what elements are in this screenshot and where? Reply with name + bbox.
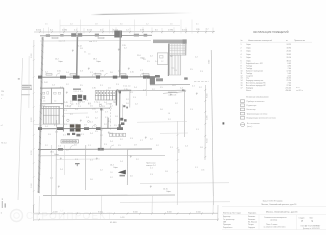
svg-text:Трубопроводы системы: Трубопроводы системы (247, 113, 268, 115)
corridor leader arrow (118, 89, 184, 92)
svg-text:Разработал: Разработал (223, 227, 232, 229)
svg-text:1.9: 1.9 (48, 134, 51, 136)
svg-text:20.05: 20.05 (287, 51, 292, 53)
svg-text:1.2: 1.2 (94, 126, 97, 128)
left margin small marks (18, 78, 20, 79)
svg-text:2.4: 2.4 (70, 24, 73, 26)
svg-text:в2: в2 (1, 125, 3, 127)
wall y128 (38, 127, 123, 130)
svg-text:Воздуховоды приточной системы: Воздуховоды приточной системы (247, 117, 277, 120)
svg-text:ООО АБ «ОСТОЖЕНКА»: ООО АБ «ОСТОЖЕНКА» (301, 224, 321, 227)
vertical x177 (176, 121, 178, 205)
svg-text:1.1: 1.1 (50, 178, 53, 180)
svg-text:4: 4 (241, 54, 242, 56)
svg-text:2.1: 2.1 (192, 86, 195, 88)
svg-text:1.2: 1.2 (199, 87, 202, 89)
svg-text:6.000: 6.000 (133, 211, 138, 213)
svg-text:1.8: 1.8 (82, 102, 85, 104)
svg-text:Офис: Офис (246, 56, 251, 59)
svg-text:1.6: 1.6 (170, 24, 173, 26)
svg-text:1.2: 1.2 (195, 57, 198, 59)
svg-text:1.3: 1.3 (58, 146, 61, 148)
svg-text:6.000: 6.000 (179, 149, 181, 153)
svg-text:1.4: 1.4 (75, 109, 78, 111)
svg-text:6.010: 6.010 (87, 29, 93, 31)
vertical x56 (55, 120, 57, 195)
svg-text:1.2: 1.2 (70, 101, 73, 103)
svg-text:1.15: 1.15 (124, 89, 128, 91)
svg-text:6.010: 6.010 (206, 139, 208, 144)
fixtures row (stalls grid) (95, 91, 115, 100)
svg-text:2.45: 2.45 (64, 102, 68, 104)
svg-text:Офис: Офис (246, 43, 251, 46)
left exterior wall (slanted, hatched) (38, 37, 44, 193)
svg-text:2.0: 2.0 (74, 145, 77, 147)
svg-text:2.2: 2.2 (45, 145, 48, 147)
svg-text:20.10: 20.10 (287, 57, 292, 59)
vertical x101 (100, 109, 102, 150)
svg-text:Офис: Офис (246, 50, 251, 53)
svg-text:2.1: 2.1 (90, 160, 93, 162)
svg-text:5.550: 5.550 (196, 211, 201, 213)
svg-text:1.3: 1.3 (55, 132, 58, 134)
dashed duct vertical (109, 103, 111, 130)
svg-text:Офис: Офис (246, 53, 251, 56)
svg-text:1.35: 1.35 (201, 170, 204, 172)
wall segment y84 right (150, 84, 190, 86)
svg-text:1.1: 1.1 (88, 145, 91, 147)
right edge vertical x213 (211, 50, 213, 205)
svg-text:2.2: 2.2 (96, 91, 99, 93)
svg-text:1.3: 1.3 (108, 121, 111, 123)
faint y133 (160, 132, 188, 134)
svg-text:1.1: 1.1 (94, 101, 97, 103)
svg-text:1.6: 1.6 (126, 103, 129, 105)
svg-text:2.2: 2.2 (124, 48, 127, 50)
svg-text:2.2: 2.2 (120, 139, 123, 141)
svg-text:2.2: 2.2 (95, 118, 98, 120)
svg-text:Заказ: ООО УК Сервис: Заказ: ООО УК Сервис (263, 200, 283, 202)
svg-text:18.90: 18.90 (287, 47, 292, 49)
svg-text:1.2: 1.2 (100, 170, 103, 172)
svg-text:0.8: 0.8 (75, 100, 78, 102)
svg-text:1.2: 1.2 (150, 139, 153, 141)
svg-text:Ив. Иванов: Ив. Иванов (248, 222, 257, 224)
svg-text:18.45: 18.45 (287, 54, 292, 56)
stair core walls (167, 44, 169, 77)
svg-text:6.000: 6.000 (31, 54, 33, 59)
svg-text:Конвектор: Конвектор (247, 109, 256, 111)
svg-text:2.3: 2.3 (116, 84, 119, 86)
svg-text:1.2: 1.2 (95, 112, 98, 114)
svg-text:1.2: 1.2 (110, 177, 113, 179)
svg-text:1.6: 1.6 (113, 102, 116, 104)
svg-text:1.500: 1.500 (53, 211, 58, 213)
svg-text:1.2: 1.2 (100, 135, 103, 137)
svg-text:Офис: Офис (58, 60, 63, 63)
svg-text:1.3: 1.3 (106, 90, 109, 92)
legend circle symbol (241, 123, 245, 127)
svg-text:1.85: 1.85 (100, 71, 104, 73)
svg-text:1.5: 1.5 (160, 87, 163, 89)
svg-text:2.1 1.4: 2.1 1.4 (74, 91, 79, 93)
svg-text:2.4: 2.4 (60, 169, 63, 171)
svg-text:ЭКСПЛИКАЦИЯ ПОМЕЩЕНИЙ: ЭКСПЛИКАЦИЯ ПОМЕЩЕНИЙ (253, 31, 289, 34)
dark equipment cluster (70, 124, 75, 127)
sub-room walls left (40, 87, 64, 89)
vertical x85 (84, 145, 87, 190)
svg-text:Пб 2.4: Пб 2.4 (1, 143, 6, 145)
svg-text:Офис: Офис (54, 153, 59, 156)
svg-text:1.1: 1.1 (150, 168, 153, 170)
svg-text:4.1: 4.1 (196, 24, 199, 26)
door arcs (56, 73, 60, 77)
left dim vertical (32, 40, 35, 213)
svg-text:системы: системы (270, 220, 278, 222)
svg-text:1.1: 1.1 (105, 117, 108, 119)
svg-text:1.35: 1.35 (92, 88, 96, 90)
stairwell hatch (169, 44, 185, 55)
svg-text:на 457 м: на 457 м (296, 90, 304, 92)
svg-text:1.3: 1.3 (118, 71, 121, 73)
svg-text:1.3: 1.3 (88, 54, 90, 56)
svg-text:1.3: 1.3 (150, 174, 153, 176)
top dimension band (34, 31, 215, 33)
svg-text:1.5: 1.5 (90, 106, 93, 108)
svg-text:Москва, Олимпийский пр., дом 1: Москва, Олимпийский пр., дом 16 (266, 210, 298, 213)
svg-text:2.0: 2.0 (130, 176, 133, 178)
vertical dim x51 lower (50, 145, 52, 214)
svg-text:1.2: 1.2 (206, 28, 209, 30)
svg-text:2.4: 2.4 (90, 133, 93, 135)
svg-text:2.05: 2.05 (57, 71, 61, 73)
level marks (72, 50, 73, 52)
svg-text:1.7: 1.7 (105, 112, 108, 114)
svg-text:1.4: 1.4 (185, 146, 188, 148)
svg-text:1.1: 1.1 (64, 124, 67, 126)
svg-text:1.8: 1.8 (80, 48, 83, 50)
vertical x120 lower (119, 91, 121, 128)
svg-text:1.8: 1.8 (95, 24, 98, 26)
svg-text:1.2: 1.2 (135, 104, 138, 106)
svg-text:5: 5 (241, 57, 242, 59)
svg-text:12.6: 12.6 (172, 85, 176, 87)
stair flight hatch (170, 55, 180, 74)
svg-text:1.2: 1.2 (156, 145, 159, 147)
svg-text:1.4: 1.4 (52, 85, 55, 87)
title block faint rules (222, 206, 326, 208)
svg-text:2.1: 2.1 (64, 110, 67, 112)
top-right wall band (153, 40, 186, 44)
svg-text:L=3200 м3: L=3200 м3 (168, 94, 176, 96)
svg-text:2.2: 2.2 (168, 119, 171, 121)
svg-text:5.55: 5.55 (196, 29, 200, 31)
svg-text:1.3: 1.3 (143, 90, 146, 92)
svg-text:2.1: 2.1 (90, 122, 93, 124)
svg-text:1.8: 1.8 (200, 147, 203, 149)
vertical x184 (183, 91, 185, 138)
svg-text:Вл. отопления: Вл. отопления (247, 123, 260, 125)
boxed label row (61, 140, 79, 143)
svg-text:1.5: 1.5 (118, 145, 121, 147)
svg-text:2.2: 2.2 (150, 56, 153, 58)
svg-text:1.3: 1.3 (75, 159, 78, 161)
svg-text:1.2: 1.2 (161, 61, 163, 63)
svg-text:2.3: 2.3 (104, 144, 107, 146)
closet room (157, 53, 168, 65)
svg-text:1.5: 1.5 (101, 110, 104, 112)
tee mark (75, 163, 80, 165)
svg-text:1.3: 1.3 (85, 100, 88, 102)
svg-text:2.4: 2.4 (110, 141, 113, 143)
svg-text:5.990: 5.990 (31, 184, 33, 189)
svg-text:1.8: 1.8 (115, 91, 118, 93)
svg-text:2.05: 2.05 (92, 109, 96, 111)
toilet fixtures (42, 92, 44, 94)
svg-text:1.9: 1.9 (102, 106, 105, 108)
svg-text:1.5: 1.5 (147, 61, 150, 63)
svg-text:1.5: 1.5 (190, 69, 193, 71)
svg-text:Итого:: Итого: (246, 90, 252, 92)
svg-text:Примечание: Примечание (294, 40, 305, 42)
bench row under wall y130 (110, 133, 126, 136)
arrow flag (118, 170, 126, 175)
svg-text:6.010: 6.010 (209, 60, 211, 64)
svg-text:1.2: 1.2 (70, 114, 73, 116)
svg-text:24.25: 24.25 (287, 44, 292, 46)
svg-text:1.5: 1.5 (80, 91, 83, 93)
svg-text:2.1: 2.1 (63, 135, 66, 137)
svg-text:Фамилия: Фамилия (248, 215, 255, 218)
wall y155 (38, 154, 165, 157)
bottom dimension lines (34, 212, 219, 215)
center leader (163, 92, 186, 94)
svg-text:2.6: 2.6 (175, 70, 177, 72)
svg-text:17: 17 (241, 88, 243, 90)
faint line y113 (64, 112, 89, 114)
corridor wall corner x116 (115, 90, 117, 106)
building top wall (40, 34, 152, 37)
svg-text:1.4: 1.4 (119, 135, 122, 137)
svg-text:1: 1 (241, 44, 242, 46)
svg-text:Приборы отопления: Приборы отопления (247, 101, 265, 103)
svg-text:пом. 1.2: пом. 1.2 (59, 41, 65, 43)
svg-text:1.7: 1.7 (140, 70, 143, 72)
svg-text:1.6: 1.6 (160, 109, 163, 111)
svg-text:1.4: 1.4 (104, 102, 107, 104)
svg-text:2.2: 2.2 (152, 89, 155, 91)
svg-text:2.2: 2.2 (100, 130, 103, 132)
site boundary line (slanted) (18, 58, 23, 200)
faint divider x146 (145, 78, 147, 97)
svg-text:Офис: Офис (246, 46, 251, 49)
stair hatch left (44, 107, 59, 124)
svg-text:3.0: 3.0 (120, 24, 123, 26)
svg-text:Директор: Директор (223, 216, 230, 218)
legend rows (240, 100, 244, 103)
svg-text:1.2: 1.2 (66, 150, 69, 152)
interior vertical wall x120 (119, 31, 122, 77)
svg-text:Офис: Офис (96, 60, 101, 63)
svg-text:пом. 2 1.4: пом. 2 1.4 (89, 41, 97, 43)
svg-text:(вент.): (вент.) (247, 126, 253, 128)
radiators along walls (52, 37, 58, 38)
svg-text:1.4: 1.4 (120, 161, 123, 163)
vertical x108 (107, 118, 109, 129)
svg-text:2.02: 2.02 (44, 82, 48, 84)
svg-text:1.6: 1.6 (90, 179, 93, 181)
svg-text:6.000: 6.000 (182, 29, 188, 31)
svg-text:1.4: 1.4 (155, 61, 158, 63)
faint line y124 (34, 123, 78, 125)
svg-text:2.1: 2.1 (78, 106, 81, 108)
svg-text:41.000: 41.000 (110, 222, 117, 224)
svg-text:5.980: 5.980 (206, 116, 208, 121)
svg-text:1.9: 1.9 (130, 92, 133, 94)
faint line y121 (137, 121, 187, 124)
svg-text:1.1: 1.1 (90, 72, 93, 74)
svg-text:пом.: пом. (172, 68, 176, 70)
dark dot x223 (223, 122, 225, 124)
main horizontal wall y77 (38, 76, 160, 79)
svg-text:1.8: 1.8 (110, 133, 113, 135)
svg-text:1.6: 1.6 (43, 101, 45, 103)
top wall piers (71, 33, 76, 37)
building bottom wall (43, 194, 175, 197)
svg-text:2.3: 2.3 (133, 97, 136, 99)
svg-text:6.000: 6.000 (36, 29, 42, 31)
svg-text:1.2: 1.2 (126, 99, 129, 101)
svg-text:5.980: 5.980 (62, 29, 68, 31)
wall y108 (40, 107, 110, 110)
svg-text:2.3: 2.3 (109, 108, 112, 110)
svg-text:в т.ч.: в т.ч. (296, 87, 300, 89)
svg-text:3.1: 3.1 (60, 87, 63, 89)
svg-text:Сидоров: Сидоров (248, 227, 255, 229)
svg-text:6.010: 6.010 (31, 151, 33, 156)
dashes y81 (194, 80, 209, 83)
svg-text:1.6: 1.6 (62, 116, 65, 118)
svg-text:2.15: 2.15 (130, 72, 134, 74)
interior vertical wall x77 (76, 37, 79, 78)
svg-text:2.0: 2.0 (143, 59, 146, 61)
faint lines bottom right (140, 182, 229, 185)
svg-text:1.6: 1.6 (110, 172, 112, 174)
svg-text:1.3: 1.3 (190, 109, 193, 111)
dark marks right of stair (120, 118, 123, 121)
svg-text:1.3: 1.3 (130, 138, 133, 140)
svg-text:2.6: 2.6 (110, 72, 113, 74)
svg-text:2.4: 2.4 (134, 87, 137, 89)
svg-text:1.4: 1.4 (54, 101, 56, 103)
scan streak (91, 13, 193, 15)
wall y149 (38, 148, 152, 151)
small circle symbols (67, 119, 69, 121)
svg-text:Радиаторы: Радиаторы (247, 105, 257, 107)
svg-text:2.3: 2.3 (200, 71, 203, 73)
svg-text:на отметке 0.000 ( М 1:100 ): на отметке 0.000 ( М 1:100 ) (264, 226, 286, 228)
svg-text:1.2: 1.2 (110, 106, 113, 108)
svg-text:1.5: 1.5 (95, 131, 98, 133)
svg-text:№: № (241, 39, 243, 42)
svg-text:1.9: 1.9 (84, 125, 87, 127)
svg-text:2.2: 2.2 (136, 159, 139, 161)
svg-text:Изм Кол.уч Лист №док: Изм Кол.уч Лист №док (223, 212, 241, 215)
svg-text:2.1: 2.1 (170, 147, 173, 149)
svg-text:1.5: 1.5 (114, 125, 117, 127)
vertical x127 (126, 149, 128, 186)
svg-text:1.4: 1.4 (180, 88, 183, 90)
watermark (11, 210, 23, 222)
svg-text:456.60: 456.60 (286, 90, 292, 92)
svg-text:1.9: 1.9 (134, 145, 137, 147)
svg-text:1.8: 1.8 (165, 171, 168, 173)
svg-text:1.4: 1.4 (45, 126, 48, 128)
svg-text:2 поз. 1.4: 2 поз. 1.4 (123, 85, 130, 87)
svg-text:2.1: 2.1 (84, 52, 86, 54)
svg-text:6.000: 6.000 (206, 94, 208, 99)
svg-text:1.1: 1.1 (106, 100, 109, 102)
svg-text:3: 3 (241, 51, 242, 53)
svg-text:с: с (1, 98, 2, 100)
svg-text:1.6: 1.6 (168, 113, 170, 115)
svg-text:вент.канал: вент.канал (168, 92, 176, 94)
svg-text:6.000: 6.000 (98, 211, 103, 213)
svg-text:2.1: 2.1 (100, 85, 103, 87)
svg-text:1.1: 1.1 (196, 129, 199, 131)
svg-text:2.3: 2.3 (80, 71, 83, 73)
svg-text:1.7: 1.7 (140, 140, 143, 142)
svg-text:1.4: 1.4 (66, 72, 69, 74)
svg-text:1.3: 1.3 (86, 117, 89, 119)
dark fixture cluster (72, 95, 77, 101)
svg-text:1.420: 1.420 (120, 217, 125, 219)
svg-text:1.8: 1.8 (115, 116, 118, 118)
faint y159 (56, 158, 100, 160)
svg-text:2.3: 2.3 (54, 125, 57, 127)
svg-text:6.000: 6.000 (167, 211, 172, 213)
svg-text:1.2: 1.2 (66, 84, 69, 86)
svg-text:2: 2 (241, 47, 242, 49)
right dim vertical x205 (204, 85, 206, 160)
svg-text:Москва, Олимпийский проспект,: Москва, Олимпийский проспект, дом 16 (262, 203, 297, 206)
svg-text:2.2: 2.2 (146, 24, 149, 26)
svg-text:1.1: 1.1 (195, 167, 198, 169)
svg-text:2.5: 2.5 (80, 85, 83, 87)
svg-text:1.3: 1.3 (81, 134, 84, 136)
svg-text:1.2: 1.2 (175, 103, 178, 105)
svg-text:6.000: 6.000 (31, 118, 33, 123)
svg-text:1.5: 1.5 (45, 24, 48, 26)
vertical x64 lower (63, 145, 65, 175)
svg-text:Фамилия: Фамилия (248, 218, 255, 221)
left margin note block (22, 85, 32, 86)
svg-text:Наименование помещений: Наименование помещений (248, 39, 272, 42)
svg-text:Офис: Офис (166, 190, 171, 193)
svg-text:Условные обозначения: Условные обозначения (246, 96, 268, 98)
svg-text:Офис: Офис (113, 166, 118, 169)
svg-text:2.2: 2.2 (104, 124, 107, 126)
svg-text:2.980: 2.980 (168, 29, 174, 31)
svg-text:1.2: 1.2 (45, 72, 48, 74)
